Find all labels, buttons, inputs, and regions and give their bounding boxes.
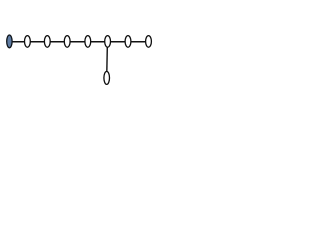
wire edge n6-n9 (vertical branch) <box>106 42 109 78</box>
wire edge n1-n2 <box>10 41 28 43</box>
node n9 (lower branch node) <box>104 71 110 84</box>
node n3 <box>44 36 50 48</box>
node n6 (branch node) <box>105 36 111 48</box>
wire edge n5-n6 <box>88 41 108 43</box>
wire edge n3-n4 <box>47 41 67 43</box>
wire edge n6-n7 <box>108 41 128 43</box>
wire edge n4-n5 <box>67 41 88 43</box>
node n2 <box>25 36 31 48</box>
wire edge n7-n8 <box>128 41 149 43</box>
wire edge n2-n3 <box>27 41 47 43</box>
node n1 (filled observed node) <box>7 35 12 48</box>
node n7 <box>125 36 131 48</box>
node n4 <box>64 36 70 48</box>
node n5 <box>85 36 91 48</box>
node n8 <box>146 36 152 48</box>
